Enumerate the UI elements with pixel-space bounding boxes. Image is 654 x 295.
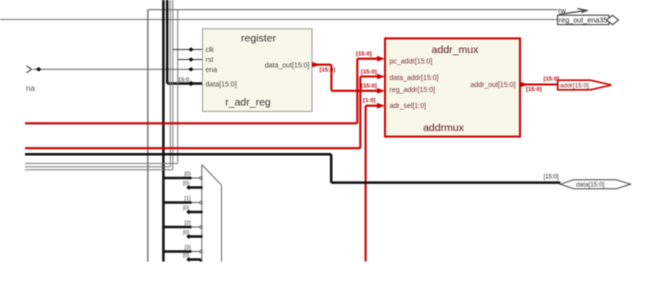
svg-text:data_addr[15:0]: data_addr[15:0] — [390, 75, 439, 82]
svg-text:15:0: 15:0 — [178, 78, 189, 84]
svg-text:[15:0]: [15:0] — [544, 77, 560, 83]
svg-text:addr[15:0]: addr[15:0] — [560, 83, 589, 90]
svg-text:[0]: [0] — [183, 181, 190, 187]
svg-text:na: na — [26, 84, 35, 93]
svg-text:[15:0]: [15:0] — [526, 87, 542, 93]
svg-text:[15:0]: [15:0] — [320, 68, 336, 74]
svg-text:[15:0]: [15:0] — [356, 52, 372, 58]
svg-text:pc_addr[15:0]: pc_addr[15:0] — [390, 58, 433, 65]
svg-text:rst: rst — [206, 57, 214, 64]
svg-text:reg_out_ena35: reg_out_ena35 — [559, 18, 608, 25]
svg-text:register: register — [241, 33, 277, 45]
svg-text:addrmux: addrmux — [423, 122, 465, 134]
svg-text:[1:0]: [1:0] — [363, 98, 375, 104]
svg-text:addr_out[15:0]: addr_out[15:0] — [470, 82, 515, 89]
svg-text:r_adr_reg: r_adr_reg — [225, 96, 271, 108]
svg-text:[15:0]: [15:0] — [361, 83, 377, 89]
svg-text:[1]: [1] — [185, 196, 192, 202]
svg-text:[0]: [0] — [183, 206, 190, 212]
svg-text:reg_addr[15:0]: reg_addr[15:0] — [390, 87, 436, 94]
svg-text:[0]: [0] — [183, 230, 190, 236]
svg-text:[0]: [0] — [185, 172, 192, 178]
svg-text:[0]: [0] — [183, 253, 190, 259]
svg-text:[2]: [2] — [185, 221, 192, 227]
svg-text:data[15:0]: data[15:0] — [206, 81, 237, 88]
svg-text:[3]: [3] — [185, 245, 192, 251]
svg-text:ena: ena — [206, 67, 218, 74]
svg-text:data_out[15:0]: data_out[15:0] — [265, 62, 310, 69]
svg-text:data[15:0]: data[15:0] — [576, 182, 605, 189]
svg-text:[15:0]: [15:0] — [544, 174, 559, 180]
svg-text:[15:0]: [15:0] — [361, 69, 377, 75]
svg-text:addr_mux: addr_mux — [432, 44, 479, 56]
svg-text:adr_sel[1:0]: adr_sel[1:0] — [390, 103, 427, 110]
svg-text:clk: clk — [206, 47, 215, 54]
